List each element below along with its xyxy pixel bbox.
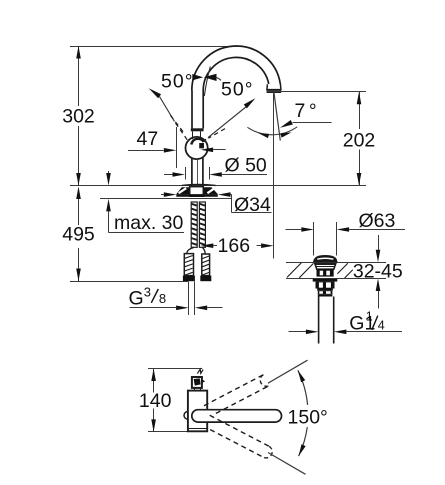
- base flange centre: [190, 187, 204, 197]
- top view body rectangle: [188, 391, 207, 432]
- top view 140 lower extension line: [148, 431, 205, 433]
- top view lower dashed spout: [210, 415, 269, 446]
- body below ball left wall: [191, 158, 193, 186]
- ball joint inner detail: [191, 139, 203, 145]
- svg-text:1: 1: [366, 310, 373, 324]
- top view neck lines: [194, 388, 196, 390]
- svg-text:166: 166: [218, 235, 251, 257]
- dimension 47 line and arrow: [128, 150, 164, 152]
- dimension 495 vertical line with arrows: [78, 198, 80, 225]
- top view spout capsule: [192, 410, 282, 422]
- dimension 202 vertical line with arrows: [359, 92, 361, 129]
- left hose end cap: [183, 276, 195, 282]
- svg-text:max. 30: max. 30: [114, 212, 184, 234]
- right hose connector: [202, 254, 210, 276]
- drain slotted section upper: [317, 269, 334, 276]
- drain lower collar: [317, 289, 333, 291]
- base flange right wing: [203, 187, 218, 194]
- svg-text:50°: 50°: [221, 79, 254, 101]
- left lever dashed outline: [176, 123, 189, 141]
- left 50-degree arc end arrow at pipe: [192, 74, 203, 80]
- svg-text:4: 4: [378, 319, 385, 333]
- body centre line: [197, 160, 199, 186]
- 150-degree arc lower part: [299, 427, 308, 456]
- threaded shank right column: [199, 202, 205, 247]
- diameter 34 left arrow: [161, 194, 164, 196]
- dimension 166 left arrow: [201, 243, 214, 248]
- diameter 63 dimension arrows: [286, 229, 302, 231]
- 7-degree angle arc with arrows: [247, 127, 297, 135]
- ball joint circle: [186, 137, 208, 159]
- G 3/8 dimension arrows: [130, 307, 177, 309]
- dimension 140 vertical line with arrows: [153, 369, 155, 393]
- svg-text:Ø34: Ø34: [234, 194, 271, 216]
- body below ball right wall: [202, 158, 204, 186]
- svg-text:7°: 7°: [295, 100, 321, 122]
- lever handle front edge: [204, 67, 210, 97]
- svg-text:150°: 150°: [288, 406, 328, 428]
- G 1 1/4 dimension arrows: [289, 331, 307, 333]
- left hose curve: [187, 248, 194, 254]
- dimension 47 right arrow at axis: [201, 148, 214, 153]
- dimension 32-45 vertical with arrows: [378, 235, 380, 251]
- right hose curve: [202, 248, 205, 255]
- svg-text:8: 8: [159, 291, 166, 306]
- svg-text:G: G: [129, 287, 144, 309]
- base flange bottom band: [176, 194, 218, 197]
- svg-text:Ø63: Ø63: [359, 210, 396, 232]
- svg-text:302: 302: [62, 106, 95, 128]
- 7-degree leader arrowhead: [280, 120, 293, 128]
- top view upper boundary line: [268, 360, 308, 383]
- svg-text:Ø 50: Ø 50: [225, 155, 267, 177]
- counter hatching right: [337, 263, 347, 274]
- svg-text:47: 47: [137, 128, 159, 150]
- right lever axis arrowhead: [244, 98, 256, 108]
- max.30 label underline: [109, 232, 185, 234]
- spout arc outer: [192, 46, 281, 90]
- counter section top line: [286, 262, 386, 264]
- dimension 302 vertical line with arrows: [78, 46, 80, 106]
- right hose end cap: [200, 276, 211, 282]
- diameter 63 extension lines: [313, 222, 315, 256]
- drain lower band: [318, 294, 333, 296]
- spout outlet end piece: [267, 84, 281, 90]
- svg-text:50°: 50°: [161, 71, 194, 93]
- svg-text:202: 202: [343, 130, 376, 152]
- drain neck: [315, 263, 336, 269]
- base flange top edge: [182, 184, 216, 185]
- spout arc inner: [203, 57, 269, 90]
- dimension 202 horizontal line from outlet: [267, 91, 366, 93]
- top view lever tick: [197, 369, 203, 373]
- counter section bottom line: [286, 278, 386, 280]
- base flange left wing: [176, 187, 189, 194]
- top view 140 upper extension line: [148, 368, 202, 370]
- reference line hose ends (495 bottom): [70, 281, 188, 283]
- top view body base line: [188, 428, 207, 430]
- drain lower slotted section: [318, 291, 333, 295]
- diameter 34 leader arrow and bracket: [218, 192, 231, 197]
- svg-text:140: 140: [139, 390, 172, 412]
- top view upper dashed spout: [204, 375, 263, 406]
- dimension 302 top reference line: [70, 46, 236, 48]
- lever handle stems into ball: [192, 131, 194, 139]
- spout pipe left wall: [191, 91, 193, 129]
- svg-text:495: 495: [62, 224, 95, 246]
- right lever tilted axis solid line: [208, 106, 247, 137]
- dimension 166 right arrow: [257, 245, 262, 247]
- 7-degree leader line: [293, 122, 332, 124]
- 150-degree arc arrowheads: [298, 370, 305, 382]
- left lever tilted axis solid line: [160, 97, 175, 122]
- max.30 dimension arrows: [108, 171, 110, 174]
- G 3/8 extension lines: [188, 282, 190, 316]
- drain tailpipe: [318, 297, 320, 344]
- counter hatching left: [287, 263, 301, 278]
- drain dome cap: [314, 256, 337, 262]
- diameter 50 extension lines: [185, 167, 187, 180]
- dimension 47 extension line: [176, 127, 178, 168]
- diameter 50 dimension arrows: [164, 174, 173, 176]
- drain flange ring: [313, 279, 338, 282]
- countertop bottom line (max 30): [100, 198, 232, 200]
- top view lever tip: [202, 379, 205, 383]
- left lever axis arrowhead: [149, 88, 161, 98]
- countertop top line: [70, 185, 366, 187]
- spout outlet 7-degree tilted line: [274, 92, 281, 141]
- spout outlet vertical extension line: [273, 93, 275, 259]
- threaded shank left column: [191, 202, 197, 247]
- 150-degree arc upper part: [298, 370, 308, 405]
- svg-text:3: 3: [144, 285, 151, 300]
- top view lever square: [192, 377, 202, 388]
- top view lower boundary line: [268, 453, 306, 475]
- left hose connector: [184, 254, 193, 276]
- right 50-degree arc end arrow at pipe: [204, 74, 217, 81]
- svg-text:32-45: 32-45: [353, 260, 403, 282]
- drain locknut: [316, 282, 335, 289]
- lever handle bottom bar: [191, 128, 204, 131]
- top view spout left bulge: [184, 412, 188, 420]
- spout pipe right wall: [202, 91, 204, 129]
- right lever dashed outline: [204, 139, 206, 141]
